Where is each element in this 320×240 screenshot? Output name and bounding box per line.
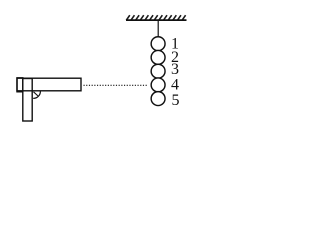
ball 5 (151, 92, 165, 106)
ball 2 (151, 50, 165, 64)
trigger (34, 92, 38, 96)
ceiling hatching (126, 15, 185, 20)
trigger guard arc (33, 91, 40, 98)
ceiling line (126, 19, 187, 21)
gun barrel (17, 78, 81, 91)
gun rear block (17, 78, 23, 92)
dotted trajectory (84, 84, 149, 86)
ball 4 (151, 78, 165, 92)
ball 1 (151, 37, 165, 51)
svg-text:4: 4 (171, 76, 179, 93)
string (157, 21, 159, 38)
gun grip (23, 79, 32, 122)
svg-text:5: 5 (172, 92, 180, 109)
ball 3 (151, 64, 165, 78)
